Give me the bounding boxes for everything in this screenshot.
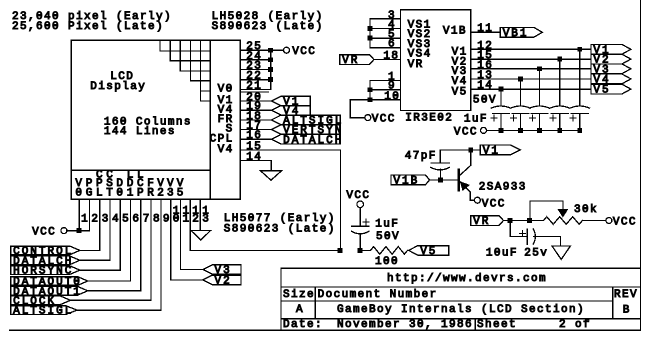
svg-text:7: 7 [143,214,151,226]
capacitor C4 lower lead [559,113,561,130]
flag V2 right edge [591,54,631,64]
capacitor C2 flat plate [512,112,529,114]
U1 pin 5 wire [370,37,401,39]
title block line above date row [281,318,641,320]
svg-text:S890623 (Late): S890623 (Late) [212,21,324,33]
wire pin25 to VCC [271,49,284,51]
wire VR to R2 [503,220,544,222]
svg-text:21: 21 [246,80,262,92]
junction V1 tap [577,47,582,52]
flag CLOCK [11,296,71,305]
capacitor C8 right lead [534,236,561,238]
svg-text:3: 3 [167,188,175,200]
capacitor C1 polarity plus [491,117,497,119]
VCC terminal at U1 pins [365,115,371,121]
junction C2 on VCC rail [518,128,523,133]
ground symbol at LCD pin 14 [260,171,281,181]
VCC bus vertical tying pins 25-21 [270,50,272,89]
capacitor C7 bottom lead [359,234,361,251]
VCC rail under capacitor bank [487,129,580,131]
svg-text:November 30, 1986: November 30, 1986 [337,319,473,331]
VCC terminal at LCD pin 1 [61,228,67,234]
bus tying U1 pins 3-6 [369,19,371,48]
flag V1 at Q1 collector [480,145,520,155]
U1 pin 9 wire [370,89,401,91]
svg-text:REV: REV [614,289,638,301]
wire pin 14 to ground [270,161,272,171]
LCD pin 17 stub wire [240,129,271,131]
wire U1 pin10 to VCC [350,99,370,101]
wire pin 15 descent [340,150,342,251]
capacitor C6 47pF flat plate [431,162,449,164]
svg-text:V5: V5 [593,85,610,97]
title block divider REV [612,287,614,319]
svg-text:IR3E02: IR3E02 [405,113,453,125]
capacitor C7 curved plate [352,231,370,234]
svg-text:V0: V0 [218,84,234,96]
svg-text:30k: 30k [574,204,598,216]
svg-text:L: L [96,188,104,200]
svg-text:http://www.devrs.com: http://www.devrs.com [387,273,547,285]
wire pin 10 to V2 flag [171,279,203,281]
flag VB1 [500,27,542,37]
svg-text:1uF: 1uF [464,113,488,125]
capacitor C6 bottom lead [440,169,442,180]
svg-text:V4: V4 [218,144,234,156]
bus tying U1 pins 1,9,10 [369,81,371,100]
junction wiper return [527,218,532,223]
LCD pin 25 stub wire [240,49,270,51]
VCC terminal above C7 [357,201,364,208]
svg-text:5: 5 [122,214,130,226]
flag DATALCH on pin 16 [272,135,341,144]
U1 pin 13 wire (V4) [471,78,591,80]
svg-text:14: 14 [477,80,493,92]
U1 pin 1 wire [370,80,401,82]
svg-text:Document Number: Document Number [318,289,438,301]
wire ALTSIGL to pin [77,309,161,311]
svg-text:VR: VR [408,59,424,71]
title block outline [281,268,641,330]
flag V5 right edge [591,84,631,94]
LCD pin 5 wire down [119,199,121,270]
capacitor C8 10uF lead [509,221,511,237]
junction pin1/pin2 VCC [77,228,82,233]
junction C4 on VCC rail [557,128,562,133]
svg-text:100: 100 [375,256,399,268]
svg-text:14: 14 [246,152,262,164]
transistor Q1 emitter leg [460,182,470,193]
svg-text:B: B [623,305,631,317]
LCD pin 1 wire down [78,199,80,230]
U1 pin 15 wire (V2) [471,58,591,60]
wire DATAOUT1 to pin [88,290,141,292]
svg-text:GameBoy Internals (LCD Section: GameBoy Internals (LCD Section) [337,304,585,316]
LCD pin 3 wire down [99,199,101,250]
svg-text:3: 3 [102,214,110,226]
junction pin15 wire / V5 node [338,248,343,253]
resistor R2 30k potentiometer [544,217,583,225]
svg-text:3: 3 [202,214,210,226]
capacitor C3 1uF lead from V3 [539,69,541,106]
wire VCC to pin1 [67,230,79,232]
capacitor C4 curved plate [550,106,569,108]
svg-text:S890623 (Late): S890623 (Late) [224,223,336,235]
flag VR at R2 [471,216,504,226]
svg-text:10uF: 10uF [486,248,518,260]
flag V3 [203,265,241,274]
ground symbol at LCD pin 13 [191,230,211,240]
wire R1 to V5 flag [408,249,409,251]
wire V1B to Q1 base [430,179,459,181]
svg-text:2: 2 [157,188,165,200]
svg-text:VR: VR [473,216,490,228]
sheet border bottom [10,329,641,331]
capacitor C2 polarity plus [511,117,517,119]
LCD pin 18 stub wire [240,119,271,121]
capacitor C4 polarity plus [550,117,556,119]
svg-text:8: 8 [153,214,161,226]
capacitor C4 flat plate [551,112,568,114]
LCD pin 14 stub wire [240,160,271,162]
svg-text:R: R [147,188,155,200]
capacitor C3 lower lead [539,113,541,130]
svg-text:50V: 50V [473,95,497,107]
capacitor C5 lower lead [579,113,581,130]
U1 pin 6 wire [370,47,401,49]
flag V4 on pin 19 [272,106,311,115]
svg-text:144 Lines: 144 Lines [104,126,176,138]
capacitor C8 polarity plus [520,233,526,235]
svg-text:4: 4 [112,214,120,226]
LCD pin 23 stub wire [240,69,270,71]
svg-text:Size: Size [283,289,315,301]
wire pin 2 to VCC junction [79,230,89,232]
LCD pin 6 wire down [129,199,131,281]
svg-text:ALTSIGL: ALTSIGL [13,306,73,318]
junction C7 / V5 node [358,248,363,253]
wire pin 11 to V3 flag [181,269,203,271]
LCD pin 15 stub wire [240,149,340,151]
op-amp IC U1 IR3E02 outline [401,10,471,111]
flag DATAOUT0 [11,277,88,286]
svg-text:1: 1 [127,188,135,200]
LCD pin 8 wire down [150,199,152,300]
LCD pin 4 wire down [109,199,111,260]
transistor Q1 base bar [458,170,461,190]
R2 wiper arrow [557,209,568,218]
wire HORSYNC to pin [80,269,120,271]
wire CLOCK to pin [70,299,151,301]
LCD pin 19 stub wire [240,109,271,111]
capacitor C1 1uF lead from V5 [500,89,502,105]
capacitor C5 polarity plus [570,117,576,119]
svg-text:5: 5 [177,188,185,200]
separator line above pin 20 cell [240,91,268,93]
junction V2 tap [557,57,562,62]
svg-text:1: 1 [81,214,89,226]
junction U1 pin 10 [368,97,373,102]
title block divider size [314,287,316,319]
svg-text:2 of: 2 of [559,319,591,331]
svg-text:VCC: VCC [292,46,316,58]
flag V1B at Q1 base [391,175,430,185]
U1 pin 12 wire (V1) [471,48,591,50]
U1 pin 14 wire (V5) [471,88,591,90]
svg-text:25,600 Pixel (Late): 25,600 Pixel (Late) [12,21,164,33]
LCD pin 16 stub wire [240,138,271,140]
U1 pin 18 wire [374,59,401,61]
capacitor C8 curved plate [533,229,535,244]
capacitor C3 curved plate [530,106,549,108]
capacitor C5 curved plate [570,106,589,108]
U1 pin 3 wire [370,18,401,20]
title block line under web row [281,286,641,288]
svg-text:V1B: V1B [393,176,419,188]
transistor Q1 collector leg [470,150,472,165]
svg-text:VCC: VCC [482,198,506,210]
LCD display block U2 outline [71,40,240,199]
LCD pin 22 stub wire [240,79,270,81]
capacitor C8 flat plate [526,229,528,244]
flag V1 on pin 20 [272,96,311,105]
svg-text:V1: V1 [483,146,500,158]
title block divider sheet [474,319,476,331]
flag V5 [409,246,449,256]
capacitor C7 flat plate [352,225,370,227]
svg-text:50V: 50V [376,231,400,243]
LCD pin 24 stub wire [240,59,270,61]
LCD pin 12 wire down [189,199,191,250]
svg-text:11: 11 [477,23,493,35]
svg-text:T: T [106,188,114,200]
svg-text:0: 0 [116,188,124,200]
svg-text:0: 0 [173,214,181,226]
capacitor C1 lower lead [500,113,502,130]
capacitor C4 1uF lead from V2 [559,59,561,105]
LCD pin 10 wire down [170,199,172,280]
svg-text:VCC: VCC [372,113,396,125]
svg-text:Date:: Date: [283,319,323,331]
svg-text:VCC: VCC [346,190,370,202]
junction U1 pin 5 [368,36,373,41]
flag HORSYNC [11,266,80,275]
svg-text:V5: V5 [452,86,468,98]
svg-text:1uF: 1uF [375,218,399,230]
capacitor C7 polarity plus [363,221,369,223]
svg-text:G: G [86,188,94,200]
svg-text:Display: Display [90,81,146,93]
capacitor C2 1uF lead from V4 [519,79,521,106]
svg-text:47pF: 47pF [405,151,437,163]
svg-text:Sheet: Sheet [477,319,517,331]
capacitor C5 1uF lead from V1 [579,49,581,105]
LCD pin 20 stub wire [240,100,271,102]
flag V1 right edge [591,44,631,54]
svg-text:6: 6 [388,39,396,51]
LCD pin 2 wire down [88,199,90,230]
junction V4 tap [518,77,523,82]
capacitor C5 flat plate [571,112,588,114]
U1 pin 4 wire [370,27,401,29]
R2 wiper wire [562,201,564,209]
resistor R1 100 [371,247,408,255]
junction C5 on VCC rail [577,128,582,133]
wire pin 12 to V5 node [190,249,340,251]
svg-text:18: 18 [383,51,399,63]
capacitor C3 polarity plus [530,117,536,119]
ground symbol at C8 [552,246,571,260]
U1 pin 10 wire [370,99,401,101]
VCC terminal at capacitor bank [481,127,487,133]
svg-text:V2: V2 [215,276,232,288]
wire C7 to R1 [360,249,371,251]
wire R2 to VCC [582,220,606,222]
svg-text:V5: V5 [420,246,437,258]
junction V5 tap [499,87,504,92]
junction pin 25 [268,48,273,53]
junction U1 pin 9 [368,87,373,92]
svg-text:V1B: V1B [443,26,467,38]
junction U1 pin 4 [368,26,373,31]
flag DATAOUT1 [11,287,88,296]
capacitor C7 top lead [359,208,361,227]
svg-text:VCC: VCC [454,127,478,139]
junction pin 24 [268,57,273,62]
flag DATALCH [11,256,80,265]
svg-text:0: 0 [75,188,83,200]
junction pin 22 [268,77,273,82]
LCD block internal divider vertical [209,40,211,199]
transistor Q1 emitter arrow [460,181,470,191]
capacitor C2 curved plate [511,106,530,108]
LCD pin 7 wire down [140,199,142,290]
wire DATAOUT0 to pin [88,280,131,282]
flag ALTSIGL [11,306,77,315]
junction V3 tap [537,66,542,71]
LCD pin 11 wire down [180,199,182,269]
flag VERTSYN on pin 17 [272,125,341,134]
junction C6/V1B [438,178,443,183]
capacitor C3 flat plate [531,112,548,114]
wire DATALCH to pin [80,259,110,261]
VCC terminal at R2 [606,218,612,224]
svg-text:VCC: VCC [613,216,637,228]
flag V2 [203,275,241,284]
VCC terminal at Q1 emitter [474,197,480,203]
wire V1 node to flag [471,149,481,151]
flag V4 right edge [591,74,631,84]
flag VR at U1 pin 18 [340,55,374,65]
capacitor C1 curved plate [491,106,510,108]
flag CONTROL [11,246,80,255]
junction C8 tap [508,218,513,223]
LCD block internal divider horizontal [71,169,210,171]
pixel-grid staircase inside LCD block [159,40,161,51]
svg-text:6: 6 [132,214,140,226]
wire CONTROL to pin [80,249,100,251]
capacitor C2 lower lead [519,113,521,130]
flag V3 right edge [591,64,631,74]
svg-text:25v: 25v [524,248,548,260]
svg-text:VCC: VCC [32,227,56,239]
junction C1 on VCC rail [499,128,504,133]
U1 pin 11 wire [471,31,500,33]
svg-text:A: A [296,304,304,316]
svg-text:2: 2 [192,214,200,226]
svg-text:VB1: VB1 [503,28,529,40]
capacitor C6 top lead [439,150,441,163]
junction pin 23 [268,67,273,72]
LCD pin 21 stub wire [240,88,270,90]
svg-text:VR: VR [342,55,359,67]
LCD pin 9 wire down [160,199,162,310]
svg-text:2SA933: 2SA933 [479,182,527,194]
svg-text:9: 9 [163,214,171,226]
LCD pin 13 wire down [199,199,201,230]
svg-text:P: P [137,188,145,200]
svg-text:DATALCH: DATALCH [283,135,343,147]
title block line under header row [281,300,613,302]
junction V1 node [468,148,473,153]
svg-text:2: 2 [91,214,99,226]
capacitor C1 flat plate [492,112,509,114]
U1 pin 16 wire (V3) [471,68,591,70]
sheet border right [640,0,642,330]
capacitor C6 47pF curved plate [431,167,449,170]
svg-text:10: 10 [384,91,400,103]
svg-text:1: 1 [183,214,191,226]
VCC terminal at LCD pin 25 [284,47,290,53]
junction C3 on VCC rail [537,128,542,133]
flag ALTSIGL on pin 18 [272,115,341,124]
